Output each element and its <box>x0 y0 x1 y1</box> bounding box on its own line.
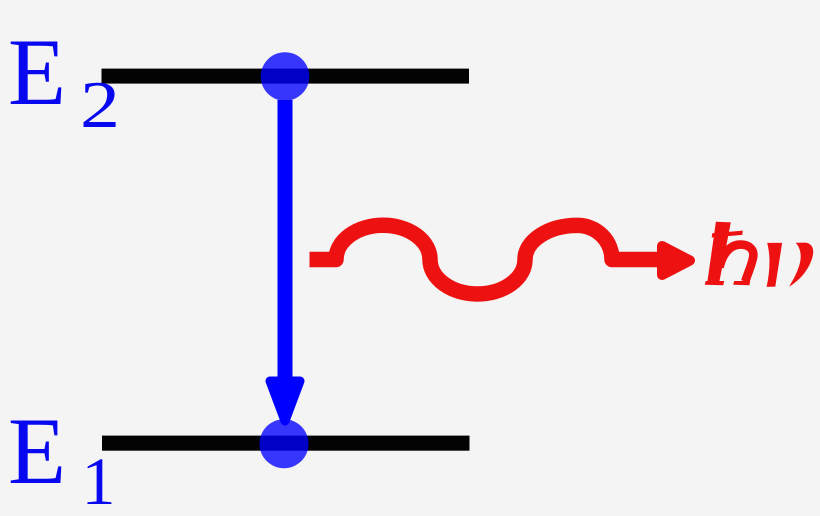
energy level E2 line <box>102 69 470 84</box>
electron dot upper <box>261 52 310 101</box>
photon energy label h-bar nu <box>705 222 754 285</box>
photon wavy line <box>310 225 659 294</box>
svg-text:2: 2 <box>80 68 120 142</box>
photon energy label nu <box>767 243 814 287</box>
electron dot lower <box>260 419 309 468</box>
svg-text:E: E <box>8 19 66 125</box>
svg-text:1: 1 <box>82 443 116 516</box>
svg-text:E: E <box>8 398 66 504</box>
transition arrow shaft <box>278 100 293 385</box>
transition arrow head <box>270 381 300 421</box>
energy level E1 line <box>102 436 470 451</box>
photon arrow head <box>662 246 690 275</box>
